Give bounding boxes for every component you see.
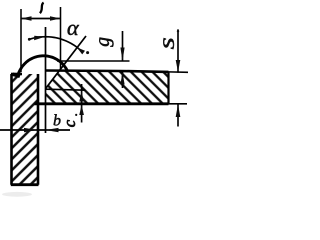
svg-text:c: c xyxy=(60,119,79,127)
svg-text:α: α xyxy=(67,15,80,40)
svg-text:s: s xyxy=(154,37,180,50)
svg-text:g: g xyxy=(93,37,114,47)
